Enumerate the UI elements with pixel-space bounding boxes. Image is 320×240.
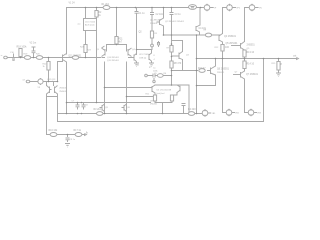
svg-text:R4 220: R4 220 [188, 109, 196, 111]
svg-text:C9 1u: C9 1u [70, 139, 75, 141]
svg-text:U2 LT1010: U2 LT1010 [139, 54, 150, 56]
svg-text:R10 47: R10 47 [198, 68, 206, 70]
svg-text:R1 2k2: R1 2k2 [102, 4, 110, 6]
svg-text:Q5 2N5401: Q5 2N5401 [226, 43, 239, 45]
svg-text:Q7 2N5401: Q7 2N5401 [246, 74, 259, 76]
svg-text:Q12 Q13: Q12 Q13 [47, 79, 56, 81]
svg-text:Q4 2N5401: Q4 2N5401 [224, 36, 237, 38]
svg-text:R8 470: R8 470 [174, 63, 182, 65]
svg-text:R13 10: R13 10 [247, 52, 255, 54]
svg-text:2N5551: 2N5551 [247, 45, 256, 47]
svg-text:V2 1m: V2 1m [30, 43, 37, 45]
svg-text:R14 10: R14 10 [247, 64, 255, 66]
svg-text:Q2 2N5401 2N5401: Q2 2N5401 2N5401 [165, 21, 185, 23]
svg-text:R17 1k: R17 1k [74, 130, 82, 132]
svg-text:U3 LT1010CS8: U3 LT1010CS8 [157, 90, 172, 92]
svg-text:2N5401: 2N5401 [59, 91, 67, 93]
svg-text:C3 1n: C3 1n [175, 14, 182, 16]
svg-text:R16 10k: R16 10k [49, 130, 59, 132]
svg-text:R18 100k: R18 100k [17, 47, 28, 49]
svg-text:8: 8 [154, 55, 155, 57]
svg-text:CS8 (x): CS8 (x) [139, 57, 147, 59]
svg-text:(ext) buf: (ext) buf [157, 92, 165, 95]
svg-text:Q1 2N5401: Q1 2N5401 [150, 20, 162, 22]
svg-text:C1 1n: C1 1n [139, 13, 146, 15]
svg-text:Q15 2N5401: Q15 2N5401 [107, 60, 120, 62]
svg-text:R3 2k2: R3 2k2 [94, 109, 102, 111]
svg-text:C6: C6 [137, 64, 139, 66]
svg-text:2N5401: 2N5401 [59, 88, 67, 90]
svg-text:Cx: Cx [153, 68, 156, 70]
svg-text:Q11 2N5551: Q11 2N5551 [68, 55, 82, 57]
svg-text:2N5401: 2N5401 [150, 23, 158, 25]
svg-text:Q6 2N5551: Q6 2N5551 [217, 69, 230, 71]
svg-text:R21: R21 [118, 39, 123, 41]
svg-text:ACS (ext): ACS (ext) [85, 23, 95, 26]
svg-text:2N5551: 2N5551 [217, 72, 225, 74]
svg-text:out: out [293, 55, 297, 58]
svg-text:U1 LT1115: U1 LT1115 [85, 21, 96, 23]
svg-text:out: out [78, 23, 81, 26]
svg-text:gn: gn [149, 67, 151, 69]
svg-text:in: in [1, 55, 3, 57]
svg-text:V1 24: V1 24 [69, 3, 76, 5]
svg-text:Q14 2N5401: Q14 2N5401 [107, 57, 120, 59]
svg-text:2N5401: 2N5401 [150, 104, 158, 106]
svg-text:C2 10n: C2 10n [156, 14, 164, 16]
